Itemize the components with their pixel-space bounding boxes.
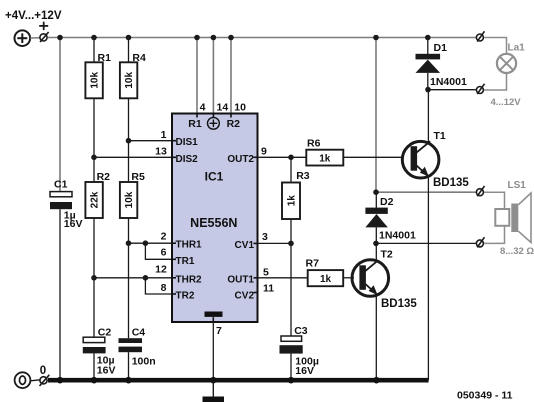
terminal speaker top [476, 186, 484, 196]
wire OUT1 pin 5 to R7 [258, 277, 308, 279]
wire lamp return bottom [484, 73, 507, 90]
wire supply drop to IC pin 4 [196, 38, 198, 114]
terminal speaker bottom [476, 237, 484, 247]
svg-text:R5: R5 [131, 171, 145, 183]
node THR2 / TR2 branch [143, 275, 149, 281]
svg-text:C3: C3 [294, 325, 308, 337]
wire R3 bottom to CV1 node and C3 [290, 219, 292, 336]
resistor R5 10k [120, 171, 145, 218]
op-amp timer IC1 NE556N body [172, 114, 258, 323]
wire to THR2 pin 12 [94, 277, 172, 279]
svg-text:1N4001: 1N4001 [379, 230, 416, 242]
svg-text:22k: 22k [90, 191, 101, 208]
wire C4 to ground bus [128, 352, 130, 380]
wire to DIS2 pin 13 [94, 156, 172, 158]
node rail / R4 [126, 35, 132, 41]
wire to DIS1 pin 1 [129, 140, 173, 142]
wire jog to TR2 pin 8 [145, 278, 172, 294]
svg-text:16V: 16V [64, 218, 83, 230]
wire battery zero to terminal [31, 380, 40, 381]
svg-text:La1: La1 [508, 42, 526, 53]
svg-text:1N4001: 1N4001 [430, 76, 467, 88]
resistor R1 10k [85, 38, 111, 99]
wire ground bus [48, 378, 429, 383]
wire speaker feed top [484, 192, 505, 209]
wire R2 bottom to C2 [93, 218, 95, 337]
wire R5 bottom to C4 [128, 218, 130, 338]
svg-text:8...32 Ω: 8...32 Ω [500, 246, 534, 257]
resistor R2 22k [85, 171, 110, 218]
node bus / C4 [125, 377, 132, 384]
svg-text:NE556N: NE556N [190, 216, 237, 230]
node THR1 / R5 column [126, 240, 132, 246]
wire CV1 pin 3 [258, 242, 292, 244]
wire T2 collector [375, 243, 377, 260]
svg-text:10k: 10k [124, 72, 135, 89]
node DIS1 / R4 column [126, 138, 132, 144]
svg-text:THR1: THR1 [176, 240, 203, 251]
svg-text:100n: 100n [132, 356, 156, 368]
svg-text:R2: R2 [227, 118, 241, 130]
wire D1 anode to lamp terminal [428, 89, 476, 91]
node rail / C1 column [57, 35, 63, 41]
wire speaker return bottom [484, 226, 505, 243]
node rail / R1 [91, 35, 97, 41]
svg-text:C4: C4 [132, 327, 146, 339]
resistor R3 1k [282, 157, 310, 219]
wire supply drop to IC pin 10 [230, 38, 232, 114]
wire C1 to ground bus [59, 209, 61, 380]
svg-text:7: 7 [216, 325, 222, 337]
terminal lamp top [476, 31, 484, 41]
wire jog to TR1 pin 6 [145, 243, 172, 259]
wire pin 7 to ground bus [212, 317, 214, 380]
svg-text:TR1: TR1 [176, 256, 195, 267]
node D2 anode / T2 collector [373, 241, 379, 247]
node bus / C3 [288, 377, 295, 384]
resistor R4 10k [120, 38, 146, 99]
diode D2 1N4001 [365, 192, 416, 243]
svg-text:2: 2 [161, 231, 167, 243]
svg-text:CV2: CV2 [235, 291, 255, 302]
svg-text:BD135: BD135 [381, 298, 417, 310]
node CV1 / R3 column [288, 241, 294, 247]
capacitor C1 1u 16V [50, 179, 82, 231]
wire D2 anode to speaker terminal [376, 242, 476, 244]
wire battery plus to terminal [30, 37, 39, 39]
svg-text:16V: 16V [295, 365, 314, 377]
IC internal ground bar pin 7 [205, 312, 223, 317]
svg-text:D2: D2 [380, 196, 394, 208]
svg-text:R1: R1 [98, 52, 112, 64]
IC pin name labels [176, 137, 255, 301]
svg-text:4: 4 [200, 102, 206, 114]
node bus / T2 emitter [373, 377, 380, 384]
battery positive terminal [14, 30, 30, 46]
svg-text:5: 5 [263, 267, 269, 279]
svg-text:0: 0 [40, 365, 46, 377]
terminal lamp bottom [476, 84, 484, 94]
svg-text:14: 14 [217, 102, 229, 114]
transistor T1 BD135 [402, 130, 469, 189]
svg-text:R2: R2 [97, 171, 111, 183]
svg-text:BD135: BD135 [433, 177, 469, 189]
node rail / pin 4 [194, 35, 200, 41]
diode D1 1N4001 [416, 38, 467, 90]
svg-text:CV1: CV1 [235, 240, 255, 251]
label + of supply terminal [39, 22, 48, 30]
capacitor C4 100n [119, 327, 156, 368]
wire lamp feed top [484, 38, 507, 54]
svg-text:D1: D1 [434, 42, 448, 54]
svg-text:T1: T1 [434, 130, 446, 142]
wire R4 bottom to R5 top [128, 99, 130, 182]
svg-text:4...12V: 4...12V [491, 97, 522, 108]
svg-text:C2: C2 [98, 327, 112, 339]
svg-text:12: 12 [155, 263, 167, 275]
svg-text:6: 6 [161, 247, 167, 259]
svg-text:13: 13 [155, 146, 167, 158]
wire supply drop to C1 [59, 38, 61, 192]
IC internal supply symbol [208, 117, 220, 129]
node THR2 / R2 column [91, 275, 97, 281]
svg-text:THR2: THR2 [176, 274, 203, 285]
svg-text:C1: C1 [54, 179, 68, 191]
svg-text:OUT2: OUT2 [227, 154, 254, 165]
svg-text:LS1: LS1 [508, 180, 527, 191]
svg-text:DIS2: DIS2 [176, 154, 199, 165]
node D1 anode / T1 collector [425, 87, 431, 93]
node bus / C1 [57, 377, 64, 384]
resistor R6 1k [306, 138, 343, 166]
node OUT2 / R3 top [288, 155, 294, 161]
svg-text:R6: R6 [307, 138, 321, 150]
wire top supply rail [48, 37, 476, 39]
svg-text:DIS1: DIS1 [176, 137, 199, 148]
svg-text:10k: 10k [90, 72, 101, 89]
svg-text:16V: 16V [97, 364, 116, 376]
ground [212, 380, 214, 396]
transistor T2 BD135 [352, 249, 417, 310]
svg-text:1k: 1k [320, 274, 332, 285]
wire supply drop to D2 cathode [375, 38, 377, 193]
wire R7 to T2 base [343, 277, 354, 279]
wire supply drop to IC pin 14 [212, 38, 214, 114]
svg-text:R3: R3 [296, 170, 310, 182]
node rail / D2 branch [373, 35, 379, 41]
node bus / C2 [91, 377, 98, 384]
svg-text:10k: 10k [124, 191, 135, 208]
wire OUT2 pin 9 to R6 [258, 156, 307, 158]
svg-text:8: 8 [161, 282, 167, 294]
svg-text:10: 10 [234, 102, 246, 114]
node DIS2 / R1 column [91, 155, 97, 161]
resistor R7 1k [306, 257, 344, 286]
wire T2 emitter to ground bus [375, 295, 377, 380]
svg-text:1k: 1k [319, 154, 331, 165]
svg-text:11: 11 [263, 282, 274, 294]
svg-text:050349 - 11: 050349 - 11 [457, 389, 513, 401]
wire supply feed to loudspeaker terminal [376, 191, 476, 193]
wire R6 to T1 base [343, 156, 404, 158]
IC pin ticks [172, 114, 258, 323]
wire R1 bottom to R2 top [93, 98, 95, 182]
lamp La1 [497, 54, 516, 73]
node THR1 / TR1 branch [143, 240, 149, 246]
capacitor C2 10u 16V [83, 327, 116, 377]
svg-text:R7: R7 [306, 257, 320, 269]
svg-text:OUT1: OUT1 [227, 274, 254, 285]
node rail / D1 cathode [425, 35, 431, 41]
svg-text:R1: R1 [188, 118, 202, 130]
loudspeaker LS1 [495, 193, 531, 243]
node rail / pin 14 [211, 35, 217, 41]
wire C2 to ground bus [93, 353, 95, 380]
capacitor C3 100u 16V [280, 325, 319, 377]
node D2 cathode / supply [373, 189, 379, 195]
wire C3 to ground bus [290, 354, 292, 380]
wire T1 emitter to ground bus [427, 176, 429, 380]
wire T1 collector [427, 90, 429, 143]
svg-text:3: 3 [262, 231, 268, 243]
svg-text:+4V...+12V: +4V...+12V [5, 10, 62, 22]
battery zero terminal [15, 372, 31, 388]
svg-text:1k: 1k [287, 195, 298, 207]
svg-text:R4: R4 [132, 52, 146, 64]
svg-text:9: 9 [261, 146, 267, 158]
node bus / pin 7 [210, 377, 217, 384]
terminal 0 (ground input) [40, 375, 50, 386]
svg-text:IC1: IC1 [205, 170, 224, 184]
svg-text:TR2: TR2 [176, 291, 195, 302]
node rail / pin 10 [228, 35, 234, 41]
wire to THR1 pin 2 [129, 242, 173, 244]
svg-text:1: 1 [161, 129, 167, 141]
terminal + (supply input) [40, 32, 49, 42]
svg-text:T2: T2 [381, 249, 393, 261]
